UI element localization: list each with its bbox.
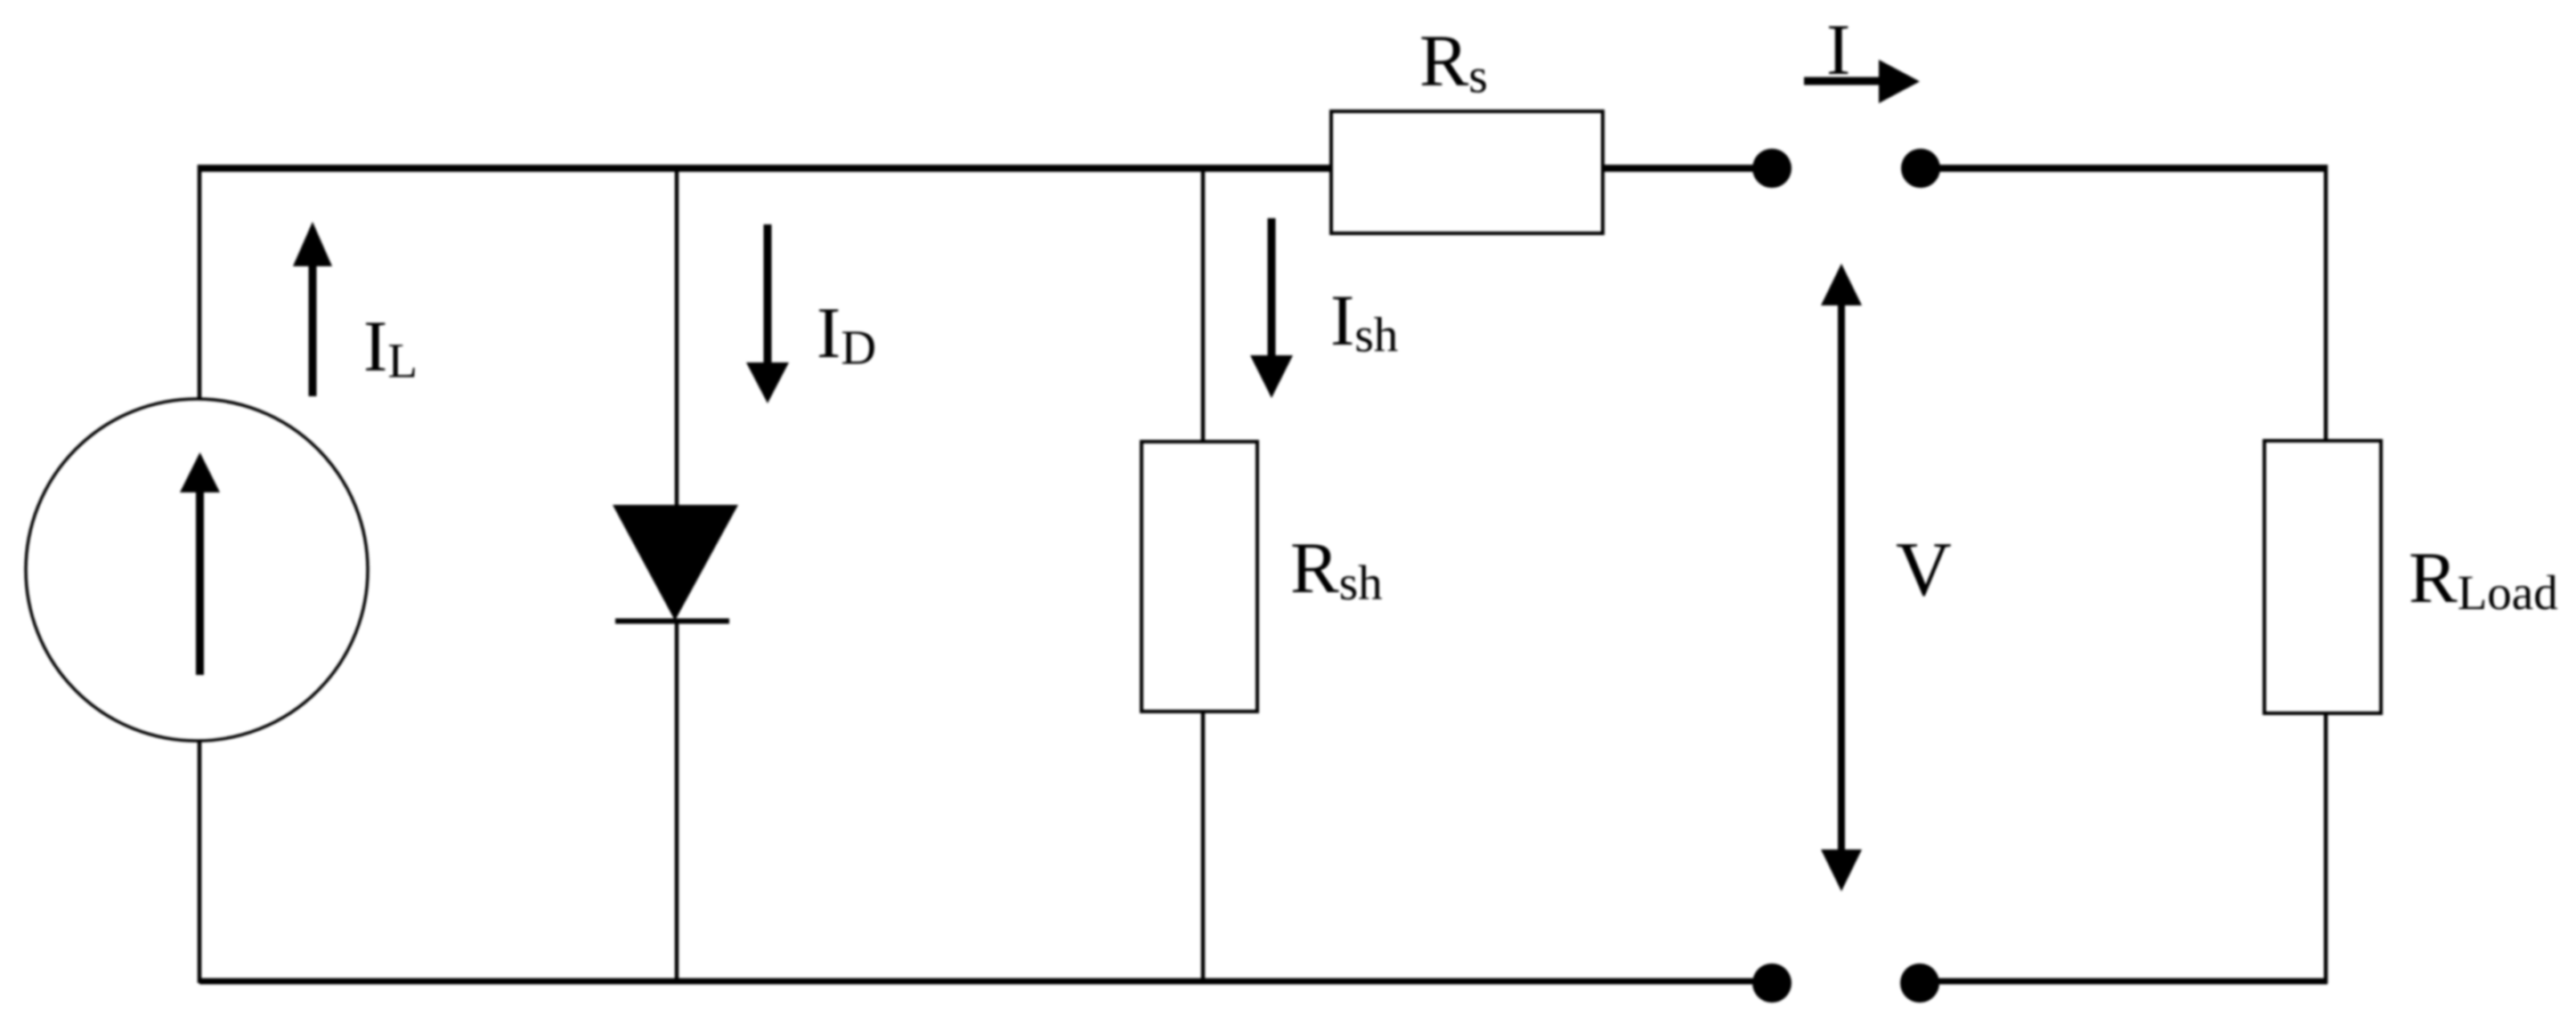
svg-text:V: V bbox=[1896, 525, 1952, 612]
svg-text:I: I bbox=[1826, 9, 1850, 90]
